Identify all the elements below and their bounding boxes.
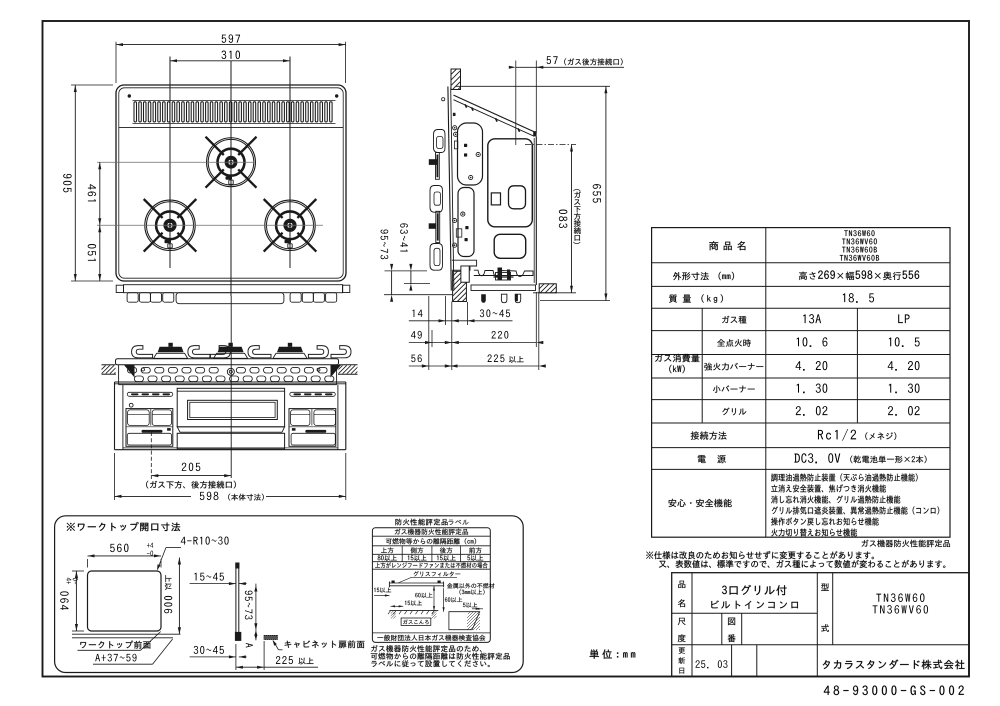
dim 225 min [235,644,237,670]
front view: center line [230,296,232,478]
plan view: center tray [176,293,284,304]
dim 460 +4-0 [75,571,77,631]
side view: front panel [448,87,451,291]
dim 556 overall depth [456,85,610,87]
callout box rounded frame [55,516,524,673]
side view: wavy bottom edge [474,270,533,276]
front view: lower tray front [177,433,284,449]
fire label diagram: dim 60 left [415,593,432,598]
cabinet door top bar [264,635,277,639]
front view: left slit grille [127,392,173,396]
spec table row: product name [709,241,718,250]
label worktop front [80,641,150,649]
side view: compartment left tall [458,123,483,185]
title block: model label [821,583,829,590]
side view: feet [481,294,486,303]
dim 14 bottom [445,296,447,325]
title block: product title [722,585,787,595]
cutout opening rect [88,571,162,631]
side view: rear face [535,137,537,286]
dim 598 body width [114,453,116,500]
fire label footer [377,635,485,641]
side view: top slant cover [454,95,536,132]
dim 597 top width [115,42,117,83]
dim A side [255,630,257,640]
title block: company name [823,660,965,670]
side view: cabinet rail hatched left [453,271,467,301]
plan view: right burner [265,200,315,250]
title block: update label [679,648,685,654]
dim 380 gas lower connection [525,144,576,146]
plan view: center burner [207,138,256,187]
cutout side sketch: worktop plate [235,563,237,633]
side view: worktop front section hatched [451,69,461,90]
drawing number [824,685,964,695]
front view: burner box band with oval vents [119,384,337,386]
spec table row: power [698,455,706,463]
corner radius leader 4-R10~30 [181,537,229,545]
extension line left burner vertical [169,57,171,269]
spec table row: outer dimensions [673,272,709,280]
side view: left knob profile lower [430,186,443,213]
dim 150 [99,225,101,281]
front view: grill door handle lip [177,427,284,432]
dim 15~45 [190,583,236,585]
front view: left knob panel [126,409,173,447]
front view: worktop section right [339,364,358,366]
front view: screw left panel [129,403,133,407]
dim 56 / 225 min [428,296,430,370]
plan view: cooktop body outline [116,85,346,281]
title block: shakudo / zuban labels [678,618,686,625]
side view: cabinet shelf hatched right [539,284,556,293]
plan view: feet left [127,293,138,303]
label A+37~59 [95,654,136,662]
fire label condition row [375,562,487,568]
centerline vertical through center burner [230,61,232,296]
side view: screws and small parts [453,126,457,130]
front view: pot support grates [132,346,153,358]
fire label diagram: dim 15 lower [405,601,422,606]
plan view: screws [128,94,131,97]
fire label diagram: dim 15 left [374,588,391,593]
worktop front face lines [72,633,181,635]
dim 30~45 [190,656,236,658]
dim 37~59 side [255,584,257,631]
fire label table cols [401,546,403,562]
front view: right knob panel [289,409,336,447]
front view: top plate slab [116,359,339,365]
dim 37~59 worktop thickness [385,270,428,272]
fire label diagram: noncombustible label [447,583,494,588]
title block: hinmei label [678,581,685,588]
side view: left knob hardware black cluster lower [429,223,436,229]
title block: date [695,660,727,668]
fire label caption below [371,645,481,652]
spec table row: weight [669,294,691,302]
dim 600 min [178,558,180,635]
front view: clamp wedges [124,365,135,378]
front view: body outline [115,381,346,383]
dim 57 gas rear connection [515,61,517,146]
fire label title [395,519,447,526]
front view: right slit grille [290,392,336,396]
front view: grill door [177,388,284,427]
dim 310 burner spacing [170,60,290,62]
dim 205 gas connection [150,432,152,479]
spec table sub rows [722,316,746,324]
plan view: left burner [145,200,195,250]
front view: worktop section left [102,364,116,366]
fire label diagram: gas stove box [401,618,431,625]
dim 49 / 220 [431,330,433,347]
spec table verticals [765,228,767,538]
plan view: feet right [290,293,301,303]
unit label [590,649,636,658]
spec table: gas consumption group label [655,354,699,362]
fire label diagram: filter bar [389,582,443,584]
front view: burner caps [168,343,172,347]
extension line right burner vertical [289,57,291,269]
side view: inner small door [509,186,526,209]
note lines [646,551,874,559]
callout title [67,522,180,531]
side view: gas valve hardware bottom [496,273,511,281]
side view: big compartment right [488,139,533,227]
side view: compartment left lower [458,188,474,257]
dim 560 +4-0 [88,555,162,557]
fire label diagram: right cabinet [449,612,480,630]
title block frame [672,573,969,677]
spec table frame [652,228,950,538]
fire label diagram: counter hatch left [389,610,438,612]
side view: rear gas inlet block [533,131,536,136]
spec table row: connection [691,431,727,439]
cutout side sketch: worktop bottom block [235,632,241,640]
plan view: back panel joint line [119,127,343,129]
side view: bottom step bracket [452,260,477,270]
side view: left bottom hook [430,244,443,271]
label cabinet door front [285,640,365,648]
side view: left knob profile upper [434,130,446,153]
fire label diagram: dim 60 right [445,597,462,602]
dim 509 left height [71,84,113,86]
side view: left knob hardware black cluster upper [429,159,437,165]
dim 164 [97,161,254,163]
label below table: fire performance certified [862,540,950,547]
side view: lower compartment [494,234,526,258]
fire label diagram: grease filter label [414,571,461,576]
dim 14~36 [404,283,430,285]
front view: ignition knob center [227,368,234,375]
side view: bottom flange [471,285,536,291]
fire label header [395,529,468,535]
fire label diagram: dim 5 [463,603,477,608]
fire label frame [372,528,490,643]
spec table row: safety features [668,499,731,507]
title block: model numbers [876,593,924,602]
plan view: bottom flange strip [124,285,343,293]
plan view: vent slot band [133,100,336,102]
